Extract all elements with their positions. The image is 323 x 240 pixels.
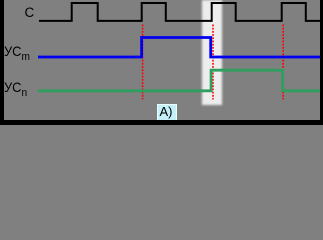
node УСn label: [4, 80, 27, 96]
node УСm label: [4, 44, 30, 60]
signal УСm waveform: [38, 38, 321, 58]
clock-edge marker line t1: [142, 25, 144, 100]
highlight band (active clock-edge marker): [202, 0, 222, 105]
clock C waveform: [39, 3, 321, 21]
label A) callout box: [157, 104, 177, 121]
clock-edge marker line t3: [282, 25, 284, 100]
clock-edge marker line t2: [212, 25, 214, 100]
bottom border bar: [0, 120, 323, 125]
right border bar: [320, 0, 323, 125]
signal УСn waveform: [38, 70, 321, 91]
left border bar: [0, 0, 4, 125]
node C label: [25, 6, 35, 20]
